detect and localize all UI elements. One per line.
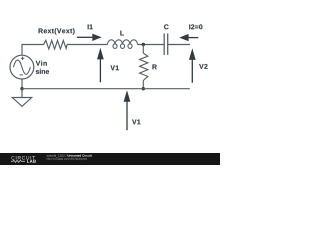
- label Vin: [36, 61, 47, 66]
- logo CIRCUIT: [11, 156, 35, 160]
- resistor R: [140, 53, 148, 80]
- current arrow I1: [77, 34, 102, 41]
- voltage source Vin: [10, 55, 34, 79]
- wire source bottom: [21, 79, 23, 89]
- ground stem: [21, 89, 23, 98]
- ground: [12, 98, 31, 107]
- voltage arrow V1 left: [97, 48, 104, 83]
- junction dot node A: [142, 43, 145, 46]
- capacitor C: [164, 33, 168, 55]
- logo squiggle: [11, 160, 25, 162]
- footer bar: [0, 153, 220, 165]
- label C: [164, 24, 169, 29]
- resistor Rext: [44, 40, 67, 49]
- footer credit name: [67, 154, 91, 156]
- voltage arrow V1 bottom: [124, 90, 131, 130]
- logo LAB: [27, 160, 36, 163]
- wire bottom: [22, 88, 190, 90]
- label V2: [199, 64, 207, 69]
- label R: [152, 64, 156, 69]
- wire top-left corner from source to Rext: [22, 45, 44, 56]
- label V1 left: [110, 65, 118, 70]
- label L: [120, 31, 124, 36]
- wire capacitor to open terminal: [168, 44, 190, 46]
- label sine: [36, 69, 49, 74]
- wire R top lead: [142, 45, 144, 54]
- inductor L: [108, 40, 138, 49]
- current arrow I2: [179, 34, 198, 41]
- wire R bottom lead: [142, 81, 144, 89]
- label I1: [88, 24, 93, 29]
- label V1 bottom: [132, 120, 140, 125]
- label Rext(Vext): [39, 28, 75, 34]
- footer credit line: [47, 154, 67, 157]
- footer url line: [47, 158, 87, 160]
- wire Rext to inductor: [67, 44, 108, 46]
- junction dot ground node: [20, 87, 23, 90]
- wire inductor to capacitor: [138, 44, 164, 46]
- voltage arrow V2: [189, 48, 196, 83]
- label I2=0: [189, 24, 202, 29]
- junction dot R bottom: [142, 87, 145, 90]
